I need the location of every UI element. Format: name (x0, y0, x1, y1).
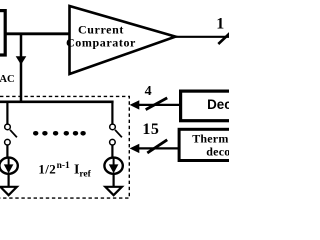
svg-text:AC: AC (0, 74, 15, 85)
svg-text:n-1: n-1 (57, 161, 70, 171)
svg-text:ref: ref (79, 170, 91, 180)
svg-text:1: 1 (216, 16, 224, 33)
svg-text:Decoder: Decoder (207, 97, 229, 112)
svg-text:Thermometer: Thermometer (192, 132, 229, 146)
svg-text:Comparator: Comparator (66, 35, 136, 49)
svg-text:4: 4 (145, 84, 152, 99)
svg-text:decoder: decoder (206, 145, 229, 159)
svg-text:15: 15 (142, 121, 159, 138)
svg-text:1/2: 1/2 (38, 161, 56, 176)
